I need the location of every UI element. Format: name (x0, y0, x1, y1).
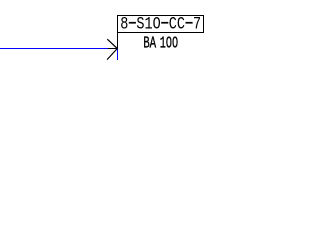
svg-text:BA: BA (143, 34, 156, 53)
svg-text:1OO: 1OO (160, 34, 178, 53)
svg-text:8 S1O CC 7: 8 S1O CC 7 (120, 14, 201, 34)
